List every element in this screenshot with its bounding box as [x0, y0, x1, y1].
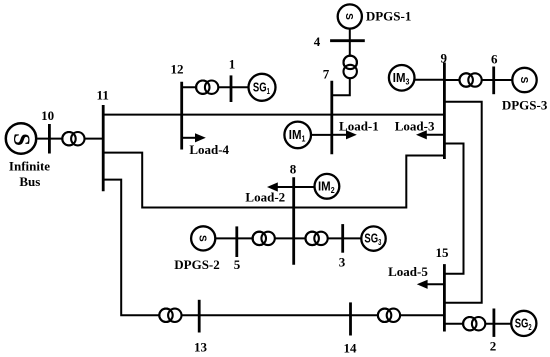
wire: infinite bus to bus 11	[37, 138, 103, 140]
load arrow Load-4	[182, 133, 206, 142]
wire: outer loop bus 9 to bus 15	[444, 102, 481, 303]
wire: DPGS-1 down through bus 4 and transformer to bus 7	[332, 29, 350, 95]
transformer bus15-bus2	[463, 317, 485, 330]
bus 13	[198, 300, 201, 333]
bus 4	[330, 39, 365, 42]
bus 1	[230, 75, 233, 102]
wire: IM2 to bus 8	[294, 186, 327, 188]
svg-text:15: 15	[436, 245, 450, 260]
transformer bus9-bus6	[460, 73, 482, 86]
bus 7	[330, 81, 333, 155]
wire: bus 15 to SG2	[444, 323, 523, 325]
wire: bus 9 to middle line to bus 11	[103, 153, 444, 208]
transformer bottom-left near bus 13	[159, 309, 181, 322]
wire: bus 12 to SG1	[182, 86, 249, 88]
svg-text:Load-1: Load-1	[339, 118, 379, 133]
bus 15	[443, 264, 446, 331]
bus 12	[180, 82, 183, 150]
svg-text:9: 9	[441, 51, 448, 66]
svg-text:S: S	[343, 13, 354, 20]
transformer bus10-bus11	[62, 132, 84, 145]
transformer bus5-bus8	[253, 232, 275, 245]
machine: IM3	[389, 65, 415, 91]
bus 6	[492, 67, 495, 95]
machine: SG3	[361, 226, 385, 250]
bus 11	[102, 105, 105, 191]
svg-text:Load-4: Load-4	[189, 142, 229, 157]
machine: SG2	[511, 311, 536, 336]
svg-text:10: 10	[41, 108, 54, 123]
svg-text:S: S	[518, 77, 529, 84]
load arrow Load-1	[332, 130, 357, 139]
svg-text:Load-3: Load-3	[395, 118, 435, 133]
bus 5	[235, 226, 238, 257]
svg-text:3: 3	[339, 254, 346, 269]
machine: SG1	[249, 74, 276, 101]
label Infinite Bus	[9, 158, 50, 189]
svg-text:14: 14	[344, 340, 358, 355]
svg-text:12: 12	[171, 61, 184, 76]
svg-text:Load-5: Load-5	[388, 264, 428, 279]
svg-text:S: S	[197, 235, 208, 242]
machine: IM2	[315, 174, 340, 199]
machine: DPGS-2	[191, 226, 215, 250]
svg-text:5: 5	[234, 257, 241, 272]
svg-text:11: 11	[97, 88, 109, 103]
machine: DPGS-1	[338, 4, 362, 28]
wire: IM3 to bus 9	[402, 79, 445, 81]
bus 10	[48, 124, 51, 154]
svg-text:DPGS-3: DPGS-3	[502, 97, 548, 112]
svg-text:13: 13	[194, 339, 208, 354]
wire: IM1 to bus 7	[298, 134, 332, 136]
wire: bus 9 to DPGS-3	[444, 79, 524, 81]
wire: bus 11 down and bottom line to bus 15	[103, 180, 444, 316]
wire: inner loop bus 9 to bus 15	[444, 144, 463, 274]
machine: infinite bus source	[6, 123, 36, 153]
load arrow Load-2	[267, 182, 294, 191]
svg-text:Bus: Bus	[19, 174, 40, 189]
machine: IM1	[284, 122, 311, 149]
bus 8	[292, 177, 295, 264]
transformer bus8-bus3	[306, 232, 328, 245]
wire: bus 8 to SG3	[294, 237, 374, 239]
transformer bus4-bus7 (vertical)	[344, 56, 357, 79]
svg-text:7: 7	[323, 67, 330, 82]
svg-text:S: S	[9, 133, 34, 146]
bus 9	[443, 63, 446, 160]
load arrow Load-5	[417, 280, 445, 289]
svg-text:Load-2: Load-2	[245, 189, 285, 204]
bus 2	[492, 309, 495, 337]
wire: main line bus 11 to bus 9	[103, 114, 444, 116]
svg-text:1: 1	[229, 57, 236, 72]
svg-text:4: 4	[314, 34, 321, 49]
svg-text:DPGS-2: DPGS-2	[174, 257, 220, 272]
transformer bus12-bus1	[196, 81, 218, 94]
wire: DPGS-2 to bus 8	[203, 237, 294, 239]
svg-text:2: 2	[490, 338, 497, 353]
bus 14	[349, 302, 352, 335]
load arrow Load-3	[416, 130, 444, 139]
transformer bottom-right near bus 14	[378, 309, 400, 322]
machine: DPGS-3	[512, 68, 536, 92]
svg-text:DPGS-1: DPGS-1	[366, 8, 412, 23]
bus 3	[341, 224, 344, 253]
svg-text:Infinite: Infinite	[9, 158, 50, 173]
svg-text:6: 6	[491, 51, 498, 66]
svg-text:8: 8	[290, 162, 297, 177]
